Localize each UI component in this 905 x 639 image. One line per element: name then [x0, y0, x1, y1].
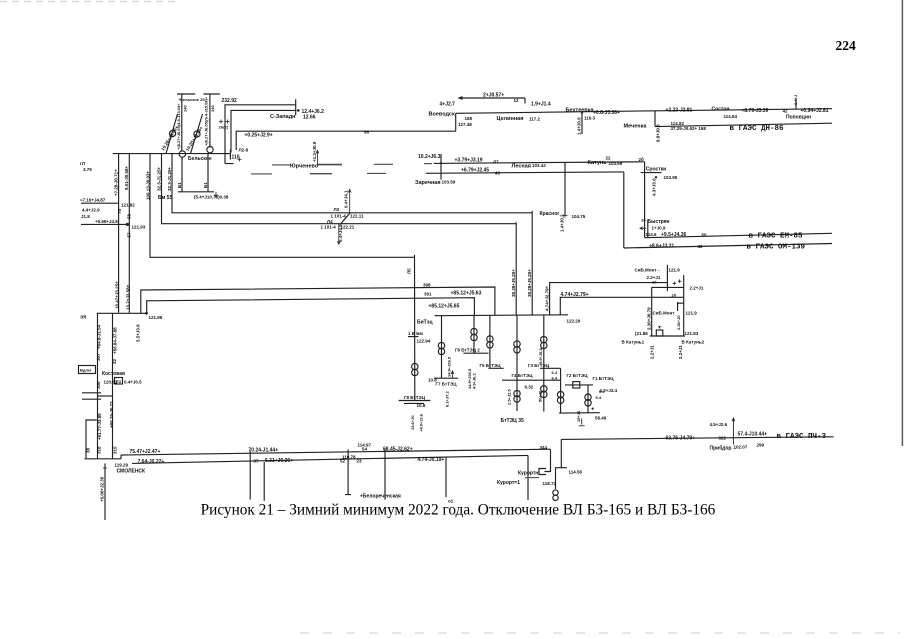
svg-text:16.47+J3.25+: 16.47+J3.25+ — [114, 281, 119, 309]
svg-text:Юрченево: Юрченево — [290, 164, 319, 170]
svg-text:118.72: 118.72 — [543, 481, 557, 486]
wire GAES DN-86 line 2 — [655, 123, 832, 126]
svg-text:Состон: Состон — [712, 107, 730, 113]
transformer T1 top bar — [177, 93, 195, 95]
wire EYA line — [97, 312, 146, 314]
svg-text:103.95: 103.95 — [664, 175, 678, 180]
svg-text:2б: 2б — [639, 156, 645, 162]
svg-text:8.8+J0.8: 8.8+J0.8 — [656, 124, 661, 142]
svg-text:в ГАЭС ЕМ-85: в ГАЭС ЕМ-85 — [749, 233, 804, 241]
wire S-Zapadn outer loop — [225, 105, 296, 164]
wire left stub line 5.66+J4.8 — [81, 223, 129, 225]
wire Mechenka junction vertical — [654, 111, 656, 127]
svg-text:Бм 55: Бм 55 — [158, 195, 172, 201]
wire drop x264 — [263, 462, 265, 501]
transformer secondary bar — [178, 191, 214, 193]
svg-text:168: 168 — [465, 116, 473, 121]
svg-text:70.24-J1.44+: 70.24-J1.44+ — [249, 447, 279, 453]
wire dashed Yurchenevo row1 seg c — [374, 163, 393, 165]
svg-text:344: 344 — [540, 445, 548, 450]
svg-text:В Катунь2: В Катунь2 — [682, 340, 705, 345]
generator G2 Belskoe slant branch — [191, 114, 203, 154]
svg-text:Л7: Л7 — [493, 160, 499, 165]
svg-text:+64.8-J1.54: +64.8-J1.54 — [96, 324, 101, 349]
svg-text:СМОЛЕНСК: СМОЛЕНСК — [117, 469, 147, 475]
svg-text:4.74+J2.79+: 4.74+J2.79+ — [544, 285, 549, 311]
svg-text:+61.77-J3.89: +61.77-J3.89 — [97, 413, 102, 440]
scan artifact right page edge — [901, 0, 903, 446]
svg-text:140: 140 — [183, 105, 188, 112]
bus BtTEC 35 upper bar — [502, 379, 560, 381]
generator G5 bar — [489, 367, 504, 369]
svg-text:+85.12+J5.63: +85.12+J5.63 — [451, 291, 482, 297]
svg-text:Л3: Л3 — [334, 207, 340, 212]
svg-text:318: 318 — [96, 446, 101, 454]
wire riser x560.3 to SibMont line2 — [560, 297, 684, 315]
svg-text:+0.94+J2.81: +0.94+J2.81 — [801, 108, 829, 114]
component Kurort box — [539, 469, 546, 475]
wire line to Voevodsk vertical start — [236, 131, 456, 150]
svg-text:2+J0.57+: 2+J0.57+ — [483, 93, 504, 99]
wire G7 column — [441, 316, 443, 379]
svg-text:38: 38 — [85, 447, 90, 453]
svg-text:≡7.16+J4.87: ≡7.16+J4.87 — [80, 198, 106, 203]
wire left drop stub to bottom bus — [86, 420, 97, 459]
svg-text:J1.8: J1.8 — [81, 214, 90, 219]
svg-text:54: 54 — [362, 447, 368, 452]
svg-text:0.4+J: 0.4+J — [793, 95, 798, 105]
component SibMont breaker box — [656, 330, 663, 336]
svg-text:0.4+J0.5: 0.4+J0.5 — [124, 380, 142, 385]
wire Pribdor stub — [732, 418, 735, 444]
wire line1 corner down to BiTEC bus — [531, 211, 533, 315]
svg-text:2.2+J1: 2.2+J1 — [650, 345, 655, 359]
svg-text:100.13-J0.03+: 100.13-J0.03+ — [146, 170, 151, 200]
svg-text:Л4: Л4 — [327, 219, 333, 224]
generator G1 Belskoe slant branch — [166, 114, 178, 154]
svg-text:Б1: Б1 — [203, 182, 208, 188]
svg-text:СиБ.Монт→: СиБ.Монт→ — [635, 268, 661, 273]
wire GAES DN-86 line 1 — [456, 109, 832, 114]
transformer G2 circles — [557, 391, 563, 397]
wire vertical x172 bus down to line1 corner — [172, 154, 532, 213]
svg-text:Рисунок 21 – Зимний минимум 20: Рисунок 21 – Зимний минимум 2022 года. О… — [201, 502, 716, 519]
node arrow dot S-Zapadn — [297, 109, 300, 112]
transformer T2 circle on bus — [207, 147, 213, 153]
svg-text:315: 315 — [112, 446, 117, 454]
svg-text:ЕЗ: ЕЗ — [116, 379, 122, 384]
svg-text:1б: 1б — [652, 280, 657, 285]
wire dashed Yurchenevo row2 seg b — [310, 173, 332, 175]
svg-text:57.4-J10.44+: 57.4-J10.44+ — [738, 432, 768, 438]
svg-text:*Бельское 2б: *Бельское 2б — [179, 97, 206, 102]
wire Kostovaya cross tick b — [82, 398, 101, 400]
svg-text:СиБ.Монт: СиБ.Монт — [653, 311, 676, 316]
svg-text:Л5: Л5 — [407, 268, 412, 274]
transformer G7 circles — [438, 342, 444, 348]
wire stub 10.2+J6.3 at Lesnaya — [440, 154, 442, 180]
svg-text:9.01-J0.58+: 9.01-J0.58+ — [124, 165, 129, 190]
svg-text:+(8.27+J6.05)4.5-J13.04+: +(8.27+J6.05)4.5-J13.04+ — [176, 103, 181, 150]
transformer G1 circles — [585, 394, 591, 400]
svg-text:121.95: 121.95 — [149, 315, 163, 320]
wire G3 column full — [543, 315, 545, 412]
svg-text:Прибдор→: Прибдор→ — [710, 445, 737, 452]
svg-text:+56.84-J7.88: +56.84-J7.88 — [113, 327, 118, 354]
wire SibMont cross tie — [652, 286, 684, 288]
node bus end tick 110 — [229, 150, 231, 160]
svg-text:38.38+J5.29+: 38.38+J5.29+ — [511, 269, 516, 297]
wire Smolensk line1 long — [121, 449, 551, 455]
node plus on stub — [103, 467, 107, 469]
svg-text:1.4+J0.9: 1.4+J0.9 — [577, 117, 582, 135]
svg-text:ЭЯ: ЭЯ — [80, 315, 86, 320]
svg-text:6.4: 6.4 — [596, 395, 602, 400]
svg-text:6.32: 6.32 — [525, 385, 534, 390]
svg-text:+5.06+J2.35: +5.06+J2.35 — [100, 476, 105, 502]
svg-text:299: 299 — [757, 443, 765, 448]
svg-text:6.31+J0.26+: 6.31+J0.26+ — [265, 458, 293, 464]
svg-text:4.2+J3.4: 4.2+J3.4 — [600, 388, 618, 393]
svg-text:Г1 БтТЭЦ: Г1 БтТЭЦ — [593, 376, 615, 381]
svg-text:306: 306 — [96, 381, 101, 389]
svg-text:398: 398 — [423, 283, 431, 288]
svg-text:БиТэц: БиТэц — [417, 320, 433, 326]
transformer column T2 vertical — [209, 94, 211, 147]
svg-text:4.4+J2.9: 4.4+J2.9 — [82, 208, 100, 213]
svg-text:32.3-J1.25+: 32.3-J1.25+ — [157, 166, 162, 191]
svg-text:Быстрян: Быстрян — [648, 219, 670, 225]
svg-text:12.66: 12.66 — [303, 115, 316, 121]
wire stub up 6.4+J4.1 at node L3 — [348, 190, 351, 213]
wire vertical L5 feeder line3 down to G8 — [414, 255, 416, 401]
svg-text:+6.79+J2.45: +6.79+J2.45 — [461, 168, 489, 174]
svg-text:391: 391 — [424, 292, 432, 297]
node junction dot Lesnaya — [440, 162, 442, 164]
svg-text:Вдлег: Вдлег — [80, 368, 92, 373]
wire line2 corner down at Kurort — [527, 455, 529, 500]
wire Kostovaya vertical x112.5 — [112, 313, 114, 459]
wire stub 1.2+J0.9 at Yurchenevo — [316, 151, 319, 165]
wire GAES OM-139 line — [624, 244, 832, 249]
svg-text:+0.8-J3.06+: +0.8-J3.06+ — [593, 110, 620, 116]
svg-text:224: 224 — [836, 38, 857, 53]
svg-text:Г7 БтТЭЦ: Г7 БтТЭЦ — [436, 382, 458, 387]
wire S-Zapadn right vertical — [295, 99, 297, 115]
svg-text:38.28+J5.29+: 38.28+J5.29+ — [527, 269, 532, 297]
svg-text:Поповцин: Поповцин — [786, 115, 811, 121]
wire dashed Yurchenevo row1 seg b — [317, 164, 342, 166]
wire lineB corner and run to BiTEC — [147, 298, 475, 315]
svg-text:гЛ: гЛ — [80, 161, 85, 166]
svg-text:13.6+J0: 13.6+J0 — [410, 415, 415, 430]
wire PCh-3 drop to Kurort tick — [560, 439, 562, 467]
svg-text:4.5+J2.6: 4.5+J2.6 — [710, 422, 728, 427]
transformer column T1 vertical — [181, 94, 183, 151]
svg-text:+7.28-J0.71+: +7.28-J0.71+ — [113, 169, 118, 196]
wire step at bus to line1 — [120, 455, 122, 459]
svg-text:75.47+J2.47+: 75.47+J2.47+ — [130, 449, 161, 455]
scan artifact bottom faint dashes — [300, 632, 900, 634]
svg-text:1 В Бм: 1 В Бм — [408, 331, 423, 336]
generator G6 bar — [463, 352, 488, 354]
svg-text:46: 46 — [698, 244, 704, 249]
svg-text:4.9+J6.2: 4.9+J6.2 — [472, 373, 477, 389]
wire vertical x150 bus down to line3 corner — [150, 154, 415, 258]
svg-text:1+J0.9: 1+J0.9 — [652, 226, 666, 231]
svg-text:104.75: 104.75 — [572, 214, 586, 219]
svg-text:+5.66+J4.8: +5.66+J4.8 — [95, 219, 118, 224]
svg-text:БтТЭЦ 35: БтТЭЦ 35 — [501, 418, 524, 424]
wire Kurort tick — [555, 467, 567, 469]
wire dashed Yurchenevo row1 seg d — [424, 163, 432, 165]
svg-text:75: 75 — [117, 208, 122, 214]
bus Belskoe 110kV — [113, 153, 230, 155]
svg-text:Костовая: Костовая — [102, 371, 125, 377]
svg-text:9.9+J5.5: 9.9+J5.5 — [538, 348, 543, 364]
generator G1 circle — [170, 130, 176, 136]
wire Kostovaya cross tick a — [82, 392, 101, 394]
svg-text:1.9+J1.4: 1.9+J1.4 — [531, 102, 551, 108]
svg-text:140: 140 — [210, 105, 215, 112]
wire line1 corner down at Kurort — [545, 449, 551, 471]
svg-text:5.5+J3.8: 5.5+J3.8 — [135, 324, 140, 342]
svg-text:127.48: 127.48 — [458, 122, 472, 127]
svg-text:13.7+J3.58+: 13.7+J3.58+ — [126, 284, 131, 310]
transformer G6 circles — [471, 328, 477, 334]
component tick G2 top — [540, 367, 561, 369]
svg-text:63.76-J4.79+: 63.76-J4.79+ — [666, 436, 696, 442]
wire dashed Yurchenevo row2 seg c — [367, 172, 386, 174]
svg-text:Целинная: Целинная — [497, 116, 524, 122]
svg-text:96: 96 — [364, 130, 370, 135]
wire S-Zapadn inner line with arrow end — [231, 110, 297, 152]
svg-text:Л2-8: Л2-8 — [239, 148, 249, 153]
svg-text:14.9+J26.5: 14.9+J26.5 — [447, 356, 452, 377]
node Krasnogorskoe plus — [563, 213, 568, 218]
svg-text:103.59: 103.59 — [442, 180, 456, 185]
svg-text:8.1+J7.2: 8.1+J7.2 — [445, 391, 450, 407]
wire G6 column — [473, 316, 475, 354]
svg-text:121.9: 121.9 — [669, 268, 681, 273]
svg-text:Красног: Красног — [540, 211, 560, 217]
svg-text:307: 307 — [96, 353, 101, 361]
svg-text:4.74+J2.79+: 4.74+J2.79+ — [561, 292, 589, 298]
wire vertical x161.5 bus down to line2 corner — [162, 154, 517, 224]
svg-text:57: 57 — [127, 232, 132, 238]
svg-text:68.45-J2.62+: 68.45-J2.62+ — [383, 447, 413, 453]
svg-text:в ГАЭС ПЧ-3: в ГАЭС ПЧ-3 — [777, 433, 827, 441]
wire G5 column — [489, 316, 491, 369]
svg-text:12: 12 — [514, 98, 520, 103]
svg-text:1 101-4: 1 101-4 — [331, 213, 347, 218]
svg-text:Сростки: Сростки — [646, 167, 666, 173]
svg-text:7.64-J0.22+: 7.64-J0.22+ — [138, 459, 165, 465]
wire dashed Yurchenevo row2 seg a — [251, 173, 272, 175]
svg-text:2б: 2б — [641, 218, 646, 223]
wire G2 column — [560, 368, 562, 413]
svg-text:103.42: 103.42 — [532, 163, 546, 168]
wire drop x348 with foot tick — [345, 450, 351, 495]
wire SibMont vertical x683.7 — [683, 275, 685, 336]
wire G1 bar — [565, 384, 593, 386]
svg-text:42: 42 — [783, 109, 789, 114]
wire Zarechnaya line — [426, 172, 624, 173]
svg-text:Курортн: Курортн — [518, 471, 538, 477]
svg-text:122.29: 122.29 — [567, 319, 581, 324]
svg-text:6.4: 6.4 — [552, 376, 558, 381]
svg-text:10.8: 10.8 — [428, 378, 437, 383]
wire stub down 6.4+J4.9 at node L4 — [337, 224, 340, 245]
wire Smolensk line2 long — [132, 455, 528, 463]
node junction dot 121.95 — [145, 312, 148, 315]
wire Srostki load tick — [641, 172, 662, 174]
svg-text:+9.5+J4.36: +9.5+J4.36 — [661, 232, 687, 238]
node plus marks SibMont — [673, 279, 682, 285]
transformer G4 circles upper — [514, 341, 520, 347]
svg-text:114.6: 114.6 — [646, 232, 658, 237]
svg-text:2.36+J0: 2.36+J0 — [676, 315, 681, 330]
bus BiTEC 110 — [435, 314, 569, 317]
wire riser x549.6 to SibMont line1 — [550, 283, 668, 315]
wire line2 corner down to BiTEC bus — [515, 222, 517, 315]
wire Kostovaya vertical x97.5 — [97, 313, 99, 458]
wire Bekhteevka stub down — [581, 112, 583, 134]
svg-text:19+J6: 19+J6 — [576, 410, 581, 422]
svg-text:117.2: 117.2 — [529, 117, 541, 122]
wire SibMont vertical x651.7 — [651, 287, 653, 336]
wire Kurortn small bar — [525, 477, 539, 479]
svg-text:В Катунь1: В Катунь1 — [622, 340, 645, 345]
wire lineA corner and run to BiTEC — [141, 287, 495, 315]
svg-text:2.2+J1: 2.2+J1 — [690, 286, 704, 291]
svg-text:6.4: 6.4 — [552, 370, 558, 375]
svg-text:55: 55 — [702, 233, 708, 238]
svg-text:в ГАЭС ОМ-139: в ГАЭС ОМ-139 — [747, 244, 806, 252]
svg-text:Г2 БтТЭЦ: Г2 БтТЭЦ — [567, 373, 589, 378]
svg-text:1 101-4: 1 101-4 — [321, 224, 337, 229]
bus BtTEC 35 bottom — [559, 412, 600, 414]
wire drop Belorechenskaya x385 — [384, 449, 386, 500]
svg-text:4+J2.7: 4+J2.7 — [440, 102, 456, 108]
transformer G4 circles lower — [514, 390, 520, 396]
generator G8 underline double — [399, 401, 431, 404]
svg-text:37: 37 — [254, 459, 260, 464]
svg-text:(21.86: (21.86 — [635, 331, 648, 336]
component condenser circles — [553, 490, 558, 495]
svg-text:Катунь: Катунь — [588, 160, 608, 166]
svg-text:+Белореченская: +Белореченская — [360, 494, 401, 500]
node small arrow under secondary bar — [215, 192, 218, 198]
svg-text:+1.2+J0.9: +1.2+J0.9 — [312, 141, 317, 162]
svg-text:2.36+J0.79: 2.36+J0.79 — [647, 307, 652, 330]
svg-text:121.93: 121.93 — [132, 225, 146, 230]
svg-text:+8.79-J3.39: +8.79-J3.39 — [742, 108, 769, 114]
transformer G3 circles upper — [541, 336, 547, 342]
svg-text:37.25-J0.62+ 168: 37.25-J0.62+ 168 — [671, 126, 707, 131]
svg-text:23: 23 — [357, 459, 363, 464]
svg-text:+65.75-J0.72: +65.75-J0.72 — [109, 401, 114, 428]
node Q arrow G7 — [451, 371, 454, 378]
svg-text:2.2+J1: 2.2+J1 — [678, 345, 683, 359]
wire bottom left bus — [85, 458, 122, 460]
generator G8 tick 1 V Bm — [408, 336, 418, 338]
svg-text:32: 32 — [112, 358, 117, 364]
wire stub 0.4+J at Popovtsin — [795, 99, 797, 110]
svg-text:+3.79+J3.19: +3.79+J3.19 — [455, 158, 483, 164]
svg-text:Г4 БтТЭЦ: Г4 БтТЭЦ — [512, 373, 534, 378]
svg-text:С-Западн: С-Западн — [270, 114, 296, 120]
component Vdleg box — [79, 366, 96, 374]
svg-text:Заречная: Заречная — [415, 180, 441, 186]
wire G1 column — [587, 385, 589, 413]
svg-text:Курорт=1: Курорт=1 — [497, 480, 520, 486]
transformer secondary leg x208 — [207, 154, 209, 192]
generator G2 circle — [194, 131, 200, 137]
svg-text:119.29: 119.29 — [115, 463, 129, 468]
component G2 breaker box — [573, 382, 580, 388]
transformer T2 top bar — [203, 93, 219, 95]
wire SibMont stub tick — [678, 302, 684, 311]
wire drop x446 — [445, 457, 447, 497]
svg-text:4.3+J3.6: 4.3+J3.6 — [652, 178, 657, 196]
svg-text:Г8 БтТЭЦ: Г8 БтТЭЦ — [404, 395, 426, 400]
svg-text:52: 52 — [340, 459, 346, 464]
svg-text:43: 43 — [495, 171, 501, 176]
svg-text:в ГАЭС ДН-86: в ГАЭС ДН-86 — [730, 125, 785, 133]
svg-text:121.9: 121.9 — [686, 311, 698, 316]
node plus marks left cluster — [219, 120, 242, 162]
svg-text:12.4+J6.2: 12.4+J6.2 — [302, 109, 325, 115]
wire diagonal tie between line1 line2 — [341, 213, 351, 224]
wire Lesnaya-Katun line — [434, 162, 645, 164]
wire drop x250 — [249, 451, 251, 500]
node Bekhteevka junction dot — [581, 112, 583, 114]
svg-text:+2.23-J2.81: +2.23-J2.81 — [666, 108, 693, 114]
transformer secondary leg x182 — [181, 157, 183, 192]
node junction blob — [126, 223, 129, 226]
svg-text:+85.12+J5.65: +85.12+J5.65 — [429, 304, 460, 310]
svg-text:2б(2): 2б(2) — [219, 125, 229, 130]
wire vertical feeder x129.3 bus to EYA line — [128, 154, 130, 313]
wire Voevodsk riser — [455, 113, 457, 131]
svg-text:103.69: 103.69 — [609, 161, 623, 166]
transformer G3 circles lower — [541, 386, 547, 392]
svg-text:Г5 БтТЭЦ: Г5 БтТЭЦ — [480, 363, 502, 368]
svg-text:122.11: 122.11 — [350, 213, 364, 218]
wire SibMont vertical x667.4 — [666, 265, 668, 291]
wire Bystryan stub — [647, 220, 649, 238]
svg-text:(5.4+J10.75)0.38: (5.4+J10.75)0.38 — [194, 195, 229, 200]
svg-text:2.5+J2.5: 2.5+J2.5 — [507, 389, 512, 405]
scan artifact top dashed edge — [0, 1, 178, 3]
component EZ box — [115, 378, 123, 385]
svg-text:10.2+J6.3: 10.2+J6.3 — [418, 154, 441, 160]
svg-text:Воеводск: Воеводск — [429, 112, 455, 118]
transformer T1 circle on bus — [179, 151, 185, 157]
wire measurement arrow line 2+J0.57 — [459, 97, 525, 104]
node Srostki dot — [655, 176, 657, 178]
svg-text:+4.9+J2.6: +4.9+J2.6 — [419, 413, 424, 432]
svg-text:22: 22 — [606, 156, 612, 161]
node Bystryan arrow left — [640, 227, 646, 230]
svg-text:114.94: 114.94 — [724, 114, 738, 119]
svg-text:6.4+J4.9: 6.4+J4.9 — [338, 224, 343, 242]
svg-text:114.56: 114.56 — [569, 470, 583, 475]
svg-text:58.49: 58.49 — [595, 416, 607, 421]
svg-text:32.3-J1.25+: 32.3-J1.25+ — [167, 166, 172, 191]
transformer G5 circles — [487, 336, 493, 342]
